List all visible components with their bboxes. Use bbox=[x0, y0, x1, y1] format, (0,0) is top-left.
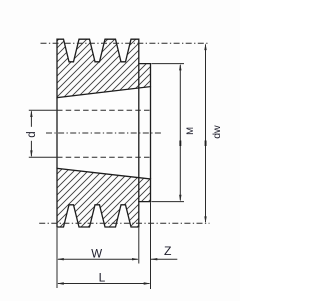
left face extension to L bbox=[56, 228, 58, 288]
hub right extension to L bbox=[150, 202, 152, 289]
pulley body: bottom half section bbox=[57, 168, 151, 227]
artifact mark on dw line bbox=[205, 141, 207, 147]
svg-text:d: d bbox=[26, 131, 38, 137]
rim right face edge through bore void bbox=[138, 64, 140, 202]
rim right extension to W bbox=[138, 228, 140, 264]
svg-text:dw: dw bbox=[211, 125, 223, 139]
svg-text:W: W bbox=[91, 248, 102, 260]
left face edge through bore void bbox=[56, 98, 58, 169]
svg-text:Z: Z bbox=[164, 244, 172, 258]
bore hidden line bottom bbox=[57, 156, 151, 158]
pitch line bottom bbox=[39, 222, 209, 224]
artifact mark on M line bbox=[179, 141, 181, 147]
hub right face edge through bore void bbox=[150, 87, 152, 179]
svg-text:L: L bbox=[99, 271, 106, 285]
bore hidden line top bbox=[57, 109, 151, 111]
pitch line top (dw datum) bbox=[41, 42, 210, 44]
pulley body: top half section bbox=[57, 39, 151, 97]
axis centerline bbox=[46, 132, 163, 134]
svg-text:M: M bbox=[185, 127, 196, 135]
